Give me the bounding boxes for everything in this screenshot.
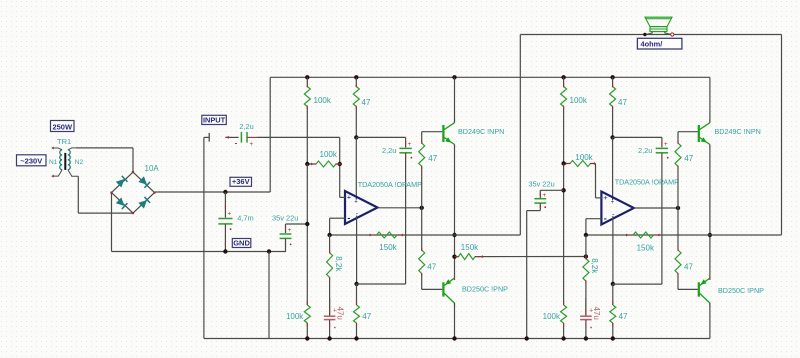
svg-text:INPUT: INPUT <box>203 115 226 124</box>
capacitor C5 47u <box>324 298 337 339</box>
svg-text:250W: 250W <box>52 122 73 131</box>
node bottom rail junction x526 <box>525 336 529 340</box>
svg-text:N1: N1 <box>49 159 58 166</box>
node speaker tap <box>452 233 456 237</box>
node rail junction x612 <box>610 75 614 79</box>
node bias cap junction right <box>561 188 565 192</box>
svg-text:47u: 47u <box>336 307 345 320</box>
wire V- link right <box>613 283 662 285</box>
svg-text:+: + <box>542 192 546 199</box>
wire base of Q2 <box>422 288 443 290</box>
wire bridge- ground bus <box>111 193 113 252</box>
svg-text:-: - <box>347 213 350 223</box>
node gnd 4,7m junction <box>223 249 227 253</box>
wire rail to Q1 collector <box>454 77 456 122</box>
resistor R12 47 <box>610 77 616 137</box>
capacitor C6 35v 22u <box>527 190 564 338</box>
capacitor C4 2,2u <box>399 141 412 284</box>
node bottom rail junction x585 <box>584 336 588 340</box>
wire bottom ground rail <box>204 338 710 340</box>
node +36V junction <box>223 190 227 194</box>
resistor R13 100k horizontal <box>564 161 596 198</box>
node bottom rail junction x307 <box>305 336 309 340</box>
wire + input stub right <box>596 197 602 199</box>
capacitor C8 47u <box>580 298 593 339</box>
node V+ junction <box>354 135 358 139</box>
svg-text:+: + <box>664 141 668 148</box>
capacitor C3 2,2u input <box>225 132 257 148</box>
label box +36V <box>230 177 252 186</box>
transistor Q3 BD249C <box>698 125 700 142</box>
wire bias chain down right <box>563 164 565 306</box>
wire Q2 collector to bottom rail <box>454 303 456 339</box>
svg-text:+: + <box>347 193 352 202</box>
node rail junction x356 <box>354 75 358 79</box>
capacitor C1 4,7m <box>218 192 232 252</box>
wire bias chain down <box>306 164 308 305</box>
svg-text:TDA2050A !OPAMP: TDA2050A !OPAMP <box>615 178 679 187</box>
wire output bus <box>330 234 521 236</box>
svg-text:4ohm/: 4ohm/ <box>641 39 663 48</box>
resistor R14 100k lower <box>561 302 567 339</box>
svg-text:+36V: +36V <box>232 177 250 186</box>
wire V+ pin of op-amp U2 <box>612 137 614 200</box>
node rail junction x307 <box>305 75 309 79</box>
svg-text:150k: 150k <box>379 243 397 252</box>
transistor Q4 BD250C <box>698 282 700 296</box>
resistor R8 8,2k <box>327 235 333 316</box>
label box 4ohm/ <box>637 38 682 49</box>
node input bias junction <box>338 162 342 166</box>
wire Q1 emitter to output node <box>454 145 456 281</box>
node gnd branch junction <box>267 249 271 253</box>
wire op-amp U1 output <box>378 207 422 209</box>
svg-text:35v 22u: 35v 22u <box>272 213 298 222</box>
wire speaker right riser <box>781 35 783 235</box>
node bias junction A <box>305 162 309 166</box>
node bias cap junction <box>305 222 309 226</box>
svg-text:+: + <box>408 141 412 148</box>
wire base of Q1 <box>422 131 443 133</box>
wire feedback bus right <box>586 234 710 236</box>
transistor Q2 BD250C <box>442 282 444 296</box>
node rail junction x454 <box>452 75 456 79</box>
svg-text:+: + <box>603 193 608 202</box>
svg-text:150k: 150k <box>637 244 655 253</box>
svg-text:-: - <box>235 138 238 147</box>
svg-text:47: 47 <box>684 154 693 163</box>
svg-text:100k: 100k <box>320 150 338 159</box>
wire bridge+ to +36V node <box>155 191 271 193</box>
transformer TR1 <box>51 147 78 178</box>
label box INPUT <box>202 115 227 124</box>
wire V+ pin of op-amp U1 <box>355 137 357 199</box>
svg-text:100k: 100k <box>314 96 332 105</box>
wire drive node to C7 <box>613 136 662 138</box>
node bias junction B <box>561 161 565 165</box>
op-amp U1 TDA2050A <box>345 191 378 224</box>
svg-text:4,7m: 4,7m <box>237 214 253 223</box>
svg-text:8,2k: 8,2k <box>334 256 343 272</box>
svg-text:47: 47 <box>619 312 628 321</box>
svg-text:10A: 10A <box>145 164 160 173</box>
node bottom rail junction x454 <box>452 336 456 340</box>
node V- junction <box>354 282 358 286</box>
node rail junction x563 <box>561 75 565 79</box>
resistor R16 150k feedback <box>626 232 659 238</box>
node - input junction right <box>584 233 588 237</box>
wire speaker top link <box>520 34 781 36</box>
resistor R15 47 upper base <box>675 132 681 208</box>
svg-text:N2: N2 <box>75 159 84 166</box>
svg-text:150k: 150k <box>461 243 479 252</box>
svg-text:47: 47 <box>428 154 437 163</box>
wire drive node to C4 <box>356 136 405 138</box>
svg-text:BD250C !PNP: BD250C !PNP <box>462 285 508 294</box>
resistor R10 47 lower base <box>419 208 425 290</box>
wire secondary top to bridge <box>77 147 134 149</box>
wire base of Q3 <box>678 131 698 133</box>
input terminal <box>204 136 209 138</box>
svg-text:47: 47 <box>684 262 693 271</box>
wire op-amp U2 output <box>634 207 678 209</box>
wire input ground down <box>203 137 205 338</box>
svg-text:-: - <box>604 213 607 223</box>
wire base of Q4 <box>678 288 698 290</box>
resistor R9 47 V- <box>354 284 360 339</box>
svg-text:+: + <box>288 227 292 234</box>
transistor Q1 BD249C <box>442 125 444 142</box>
svg-text:BD249C !NPN: BD249C !NPN <box>458 127 504 136</box>
wire input signal to op-amp <box>258 136 340 138</box>
svg-text:2,2u: 2,2u <box>638 146 652 155</box>
node output junction <box>420 206 424 210</box>
label box ~230V <box>17 155 47 166</box>
wire V- pin of op-amp U1 <box>356 216 358 284</box>
svg-text:100k: 100k <box>575 153 593 162</box>
svg-text:47: 47 <box>618 98 627 107</box>
svg-text:47: 47 <box>362 312 371 321</box>
wire secondary bottom to bridge <box>77 176 79 213</box>
svg-text:+: + <box>354 200 358 206</box>
resistor R2 47 <box>353 77 359 137</box>
svg-text:2,2u: 2,2u <box>239 122 253 131</box>
wire speaker left riser <box>519 35 521 236</box>
wire + input stub <box>340 196 346 198</box>
node bottom rail junction x356 <box>354 336 358 340</box>
op-amp U2 TDA2050A <box>601 192 634 225</box>
svg-text:+: + <box>227 210 231 217</box>
wire V- link <box>357 283 406 285</box>
svg-text:8,2k: 8,2k <box>590 258 599 274</box>
svg-text:35v 22u: 35v 22u <box>528 180 554 189</box>
resistor R1 100k <box>304 77 310 164</box>
node feedback junction <box>327 233 331 237</box>
wire - input stub right <box>586 218 602 220</box>
svg-text:100k: 100k <box>286 312 304 321</box>
wire output to speaker right <box>710 234 782 236</box>
svg-text:+: + <box>249 141 253 148</box>
label box 250W <box>51 121 75 132</box>
resistor R7 150k bridge link <box>455 254 586 260</box>
wire Q3 emitter chain <box>709 145 711 281</box>
wire top supply rail <box>270 76 710 78</box>
node V- junction right <box>611 282 615 286</box>
svg-text:47u: 47u <box>592 307 601 320</box>
resistor R5 47 upper base <box>419 132 425 208</box>
node V+ junction right <box>610 135 614 139</box>
node bottom rail junction x612 <box>611 336 615 340</box>
svg-text:100k: 100k <box>543 312 561 321</box>
node bridge link junction right <box>584 254 588 258</box>
svg-text:+: + <box>611 200 615 206</box>
svg-text:~230V: ~230V <box>20 157 42 166</box>
svg-text:TDA2050A !OPAMP: TDA2050A !OPAMP <box>358 180 422 189</box>
bridge rectifier 10A <box>110 171 155 214</box>
wire gnd to bottom rail <box>268 252 270 339</box>
node output bus right <box>708 233 712 237</box>
svg-text:2,2u: 2,2u <box>382 146 396 155</box>
svg-text:BD249C !NPN: BD249C !NPN <box>715 127 761 136</box>
svg-text:BD250C !PNP: BD250C !PNP <box>718 286 764 295</box>
resistor R17 8,2k <box>583 235 589 316</box>
svg-text:GND: GND <box>233 238 250 247</box>
svg-text:TR1: TR1 <box>57 137 71 146</box>
svg-text:47: 47 <box>362 98 371 107</box>
wire rail corner to Q3 collector <box>709 77 711 122</box>
capacitor C7 2,2u <box>656 141 669 284</box>
node bottom rail junction x329 <box>327 336 331 340</box>
node output junction right <box>676 206 680 210</box>
resistor R18 47 V- <box>610 284 616 339</box>
resistor R19 47 lower base <box>675 208 681 289</box>
wire V- pin of op-amp U2 <box>612 216 614 284</box>
svg-text:47: 47 <box>427 262 436 271</box>
wire - input stub <box>330 217 346 219</box>
resistor R6 150k feedback <box>370 232 403 238</box>
resistor R3 100k horizontal <box>307 161 340 167</box>
wire Q4 collector to bottom rail <box>709 303 711 339</box>
resistor R4 100k lower <box>304 302 310 339</box>
node bottom rail junction x563 <box>561 336 565 340</box>
resistor R11 100k <box>561 77 567 163</box>
capacitor C2 35v 22u <box>280 224 308 252</box>
node bridge-out junction <box>452 255 456 259</box>
svg-text:100k: 100k <box>570 96 588 105</box>
speaker LS1 4ohm <box>643 17 674 36</box>
label box GND <box>232 239 251 248</box>
